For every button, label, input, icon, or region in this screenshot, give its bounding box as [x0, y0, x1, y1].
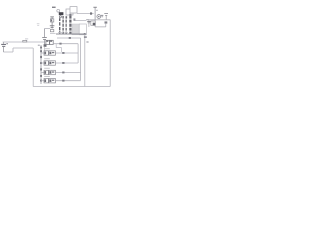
component below y19.6: [95, 20, 107, 27]
IC U1 shaded: [72, 18, 86, 35]
capacitor C1: [42, 29, 47, 45]
choke L1: [46, 40, 53, 44]
snubber network C2/R1: [50, 17, 56, 34]
wire x84.8 down to bottom: [84, 34, 86, 86]
optocoupler box U2: [91, 21, 96, 25]
diode D1: [44, 44, 47, 47]
output row 1: [41, 48, 78, 55]
output row 2: [41, 58, 78, 65]
transistor circle Q1: [97, 15, 103, 19]
wire y19.6: [74, 19, 110, 22]
rail VCC: [93, 7, 98, 20]
capacitor C3 top right: [104, 13, 108, 19]
curve symbol: [57, 9, 60, 12]
label below thick wire right: [86, 41, 88, 43]
thick secondary bottom wire y34: [56, 33, 86, 35]
transformer T1: [59, 12, 72, 33]
output row 4: [41, 76, 81, 83]
wire choke to row1: [56, 44, 61, 52]
output row 3: [41, 68, 81, 75]
label near x38 y24: [37, 22, 40, 25]
capacitor C4 on vertical wire: [86, 20, 90, 27]
wire top AC line y42: [3, 41, 45, 43]
box frame over transformer 2: [70, 7, 77, 13]
label dash top: [52, 7, 56, 8]
wire x78 vertical: [77, 44, 79, 63]
battery B1: [1, 42, 8, 52]
wire right edge down: [109, 20, 111, 87]
fuse F1: [23, 39, 28, 43]
label above thick wire: [58, 31, 63, 34]
wire x80.5 vertical: [80, 38, 82, 80]
arrow on y38: [69, 37, 71, 39]
wire AC return loop: [3, 48, 33, 52]
wire y43.7: [53, 43, 78, 45]
box frame over transformer 1: [66, 9, 73, 15]
wire left bus down: [32, 48, 34, 87]
arrow on y43.7: [59, 43, 61, 45]
wire y38: [57, 37, 81, 39]
secondary rectifier bus x41: [40, 45, 42, 84]
junction mark on x84.8: [84, 36, 87, 37]
wire to snubber y28: [45, 28, 51, 30]
diode D2: [90, 12, 92, 14]
wire bottom y86.5: [33, 86, 110, 88]
label near x38 y45: [38, 45, 40, 46]
wire secondary top y13.6: [77, 13, 94, 15]
